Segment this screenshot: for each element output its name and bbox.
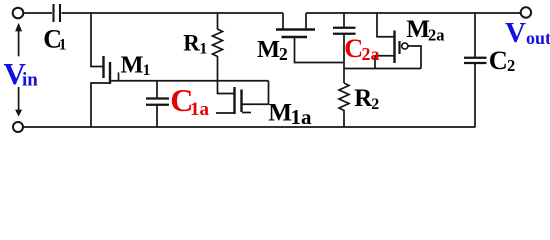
svg-text:1: 1: [143, 62, 151, 79]
svg-text:2: 2: [371, 96, 379, 113]
svg-text:C: C: [489, 45, 508, 75]
svg-text:1a: 1a: [291, 105, 313, 129]
svg-text:2a: 2a: [362, 44, 380, 64]
svg-text:1a: 1a: [190, 99, 210, 120]
svg-text:2: 2: [279, 44, 288, 64]
svg-text:1: 1: [59, 37, 67, 54]
svg-text:R: R: [183, 31, 200, 56]
svg-text:M: M: [121, 52, 144, 79]
svg-text:C: C: [344, 34, 363, 63]
svg-text:M: M: [268, 100, 292, 127]
svg-text:2a: 2a: [428, 26, 445, 45]
svg-text:1: 1: [199, 38, 207, 57]
svg-text:in: in: [22, 69, 38, 90]
svg-text:M: M: [257, 36, 280, 63]
svg-text:2: 2: [507, 56, 515, 75]
svg-text:out: out: [526, 28, 550, 48]
svg-text:V: V: [505, 17, 526, 49]
svg-text:M: M: [406, 16, 430, 43]
